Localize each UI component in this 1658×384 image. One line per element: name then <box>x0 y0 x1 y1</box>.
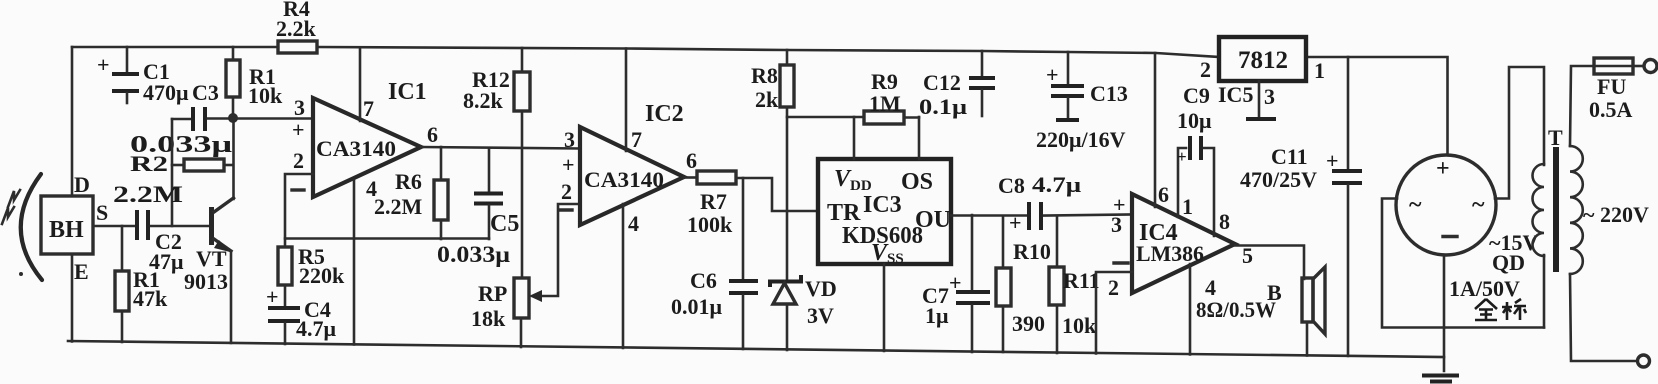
capacitor C7 1u <box>922 215 990 352</box>
wire: IC1 output to IC2 pin 3 <box>421 147 580 149</box>
svg-text:~ 220V: ~ 220V <box>1583 202 1649 227</box>
svg-text:470μ: 470μ <box>143 80 189 105</box>
resistor R9 1M <box>864 69 919 124</box>
resistor R6 2.2M <box>374 147 448 239</box>
capacitor C13 220u/16V <box>1036 52 1128 152</box>
svg-text:IC3: IC3 <box>863 192 902 218</box>
svg-text:R6: R6 <box>395 169 422 194</box>
wire: left rail from top rail down to BH pin D <box>71 47 74 196</box>
wire: top supply rail (left of R4) <box>72 46 278 49</box>
capacitor C11 470/25V <box>1240 57 1362 356</box>
potentiometer RP 18k <box>471 278 529 347</box>
svg-text:~: ~ <box>1472 192 1485 218</box>
resistor R8 2k <box>751 50 794 112</box>
svg-text:220μ/16V: 220μ/16V <box>1036 127 1126 152</box>
capacitor C6 0.01u <box>671 178 758 349</box>
svg-text:CA3140: CA3140 <box>316 136 396 161</box>
svg-text:390: 390 <box>1012 311 1045 336</box>
svg-text:2k: 2k <box>755 87 779 112</box>
svg-text:1μ: 1μ <box>925 303 949 328</box>
transistor VT 9013 <box>184 198 234 343</box>
svg-text:R2: R2 <box>130 151 168 176</box>
timer IC3 KDS608 box <box>818 159 951 267</box>
wire: C8 to IC4 pin 3 <box>1044 215 1132 216</box>
svg-text:2.2M: 2.2M <box>113 182 183 207</box>
wire: IC3 VSS pin to ground rail <box>883 264 886 351</box>
resistor R5 220k <box>278 244 345 306</box>
transformer T secondary winding <box>1533 164 1544 256</box>
capacitor C2 47u <box>137 210 184 274</box>
resistor R12 8.2k <box>463 48 530 113</box>
svg-text:D: D <box>74 172 90 197</box>
speaker B 8ohm/0.5W <box>1196 267 1325 356</box>
svg-text:FU: FU <box>1597 74 1626 99</box>
wire: bridge left ~ input from transformer secondary bottom <box>1382 199 1544 328</box>
capacitor C3 0.033u <box>130 80 233 158</box>
svg-text:VT: VT <box>196 246 227 271</box>
svg-text:+: + <box>1436 156 1450 182</box>
svg-text:R7: R7 <box>700 189 727 214</box>
svg-text:+: + <box>266 284 279 309</box>
svg-text:8: 8 <box>1219 209 1230 234</box>
wire: IC4 pin 6 to top rail <box>1154 53 1157 207</box>
AC terminal (top) <box>1644 60 1657 73</box>
svg-text:1: 1 <box>1314 58 1325 83</box>
svg-text:10μ: 10μ <box>1177 108 1212 133</box>
svg-text:8Ω/0.5W: 8Ω/0.5W <box>1196 297 1276 322</box>
svg-text:T: T <box>1548 125 1563 150</box>
node A: junction dot R1/C3/pin3 <box>228 113 238 123</box>
svg-text:0.5A: 0.5A <box>1589 97 1633 122</box>
transformer core <box>1553 147 1559 272</box>
svg-text:7: 7 <box>363 96 374 121</box>
wire: IC1 pin 4 to ground rail <box>353 180 356 345</box>
zener diode VD 3V <box>770 275 837 350</box>
op-amp IC2 CA3140 <box>580 101 684 225</box>
svg-text:C3: C3 <box>192 80 219 105</box>
bridge rectifier QD <box>1396 155 1538 301</box>
svg-text:10k: 10k <box>248 83 283 108</box>
resistor R4 2.2k (inline in top rail) <box>276 0 317 53</box>
svg-text:VD: VD <box>805 276 837 301</box>
wire: secondary bottom lead <box>1543 255 1546 328</box>
svg-text:1A/50V: 1A/50V <box>1449 276 1520 301</box>
wire: C2 to VT base <box>151 225 209 228</box>
svg-text:1: 1 <box>1182 194 1193 219</box>
svg-text:0.033μ: 0.033μ <box>437 242 510 267</box>
wire: R8 node to R9 left <box>787 116 864 119</box>
wire: IC4 pin 2 stub to ground rail <box>1096 272 1132 354</box>
wire: primary top to fuse <box>1570 66 1594 146</box>
svg-text:7: 7 <box>631 127 642 152</box>
wire: IC4 pin 5 output to speaker <box>1235 246 1304 280</box>
svg-text:470/25V: 470/25V <box>1240 167 1317 192</box>
svg-text:3: 3 <box>1264 84 1275 109</box>
svg-text:2.2k: 2.2k <box>276 16 317 41</box>
svg-text:SS: SS <box>887 251 904 267</box>
wire: junction to IC1 pin 3 <box>233 117 313 120</box>
power amp IC4 LM386 <box>1132 194 1235 293</box>
svg-text:2: 2 <box>1200 57 1211 82</box>
wire: 7812 pin 3 stub with end bar <box>1246 81 1276 119</box>
wire: IC1 pin 2 stub down to feedback node <box>285 174 313 247</box>
svg-text:+: + <box>1009 210 1022 235</box>
svg-text:+: + <box>1326 148 1339 173</box>
svg-text:2: 2 <box>1108 275 1119 300</box>
wire: R8 down through TR wire to zener VD <box>786 107 789 279</box>
svg-text:~: ~ <box>1409 192 1422 218</box>
svg-text:0.01μ: 0.01μ <box>671 294 723 319</box>
svg-text:C9: C9 <box>1183 83 1210 108</box>
wire: vertical from junction down to VT collector <box>232 118 235 199</box>
wire: IC2 pin 4 to ground rail <box>622 204 625 348</box>
wire: IC4 pin 4 to ground rail <box>1189 264 1192 355</box>
svg-text:R8: R8 <box>751 63 778 88</box>
svg-text:2: 2 <box>293 148 304 173</box>
microphone BH box <box>41 196 93 254</box>
svg-text:+: + <box>97 52 110 77</box>
resistor R11 10k <box>1049 216 1100 353</box>
svg-text:10k: 10k <box>1062 313 1097 338</box>
svg-text:C12: C12 <box>923 70 961 95</box>
svg-text:RP: RP <box>478 281 507 306</box>
svg-text:C13: C13 <box>1090 81 1128 106</box>
svg-text:1M: 1M <box>869 91 901 116</box>
sound-wave squiggle marks <box>2 190 23 276</box>
wire: bottom ground rail <box>68 341 1444 357</box>
capacitor C9 10u (pins 1-8) <box>1177 83 1214 236</box>
wire: IC2 pin 7 to top rail <box>625 49 628 152</box>
AC terminal (bottom) <box>1638 355 1650 367</box>
minus input mark <box>1114 261 1128 264</box>
svg-text:C8: C8 <box>998 173 1025 198</box>
wire: feedback leg C3/R2 down to base wire <box>171 119 174 226</box>
wire: bridge minus output down to ground <box>1443 255 1446 371</box>
svg-text:4.7μ: 4.7μ <box>1032 172 1082 197</box>
svg-text:2: 2 <box>561 179 572 204</box>
capacitor C4 4.7u <box>266 284 337 344</box>
wire: R12 bottom down to RP (crosses IC1-IC2 signal wire) <box>521 111 524 278</box>
label 全桥 (drawn strokes) <box>1475 299 1526 320</box>
svg-text:IC5: IC5 <box>1218 82 1253 107</box>
fuse FU 0.5A <box>1589 58 1644 122</box>
svg-text:+: + <box>1046 62 1059 87</box>
svg-text:LM386: LM386 <box>1136 241 1204 266</box>
svg-text:S: S <box>96 200 108 225</box>
op-amp IC1 CA3140 <box>313 79 427 197</box>
wire: top supply rail (7812 pin 1 to bridge +) <box>1306 57 1448 155</box>
svg-text:6: 6 <box>686 148 697 173</box>
wire: BH pin E down to ground rail <box>71 254 74 342</box>
svg-text:IC1: IC1 <box>388 79 427 105</box>
svg-text:47k: 47k <box>133 286 168 311</box>
svg-text:C6: C6 <box>690 268 717 293</box>
svg-text:220k: 220k <box>299 263 345 288</box>
wire: VDD pin up to R9 wire <box>853 117 856 159</box>
transformer T primary winding <box>1570 146 1583 274</box>
svg-text:3: 3 <box>564 127 575 152</box>
ground <box>1422 376 1459 382</box>
svg-text:4.7μ: 4.7μ <box>296 316 337 341</box>
svg-text:0.1μ: 0.1μ <box>919 94 968 119</box>
svg-text:+: + <box>1177 147 1187 166</box>
wire: R9 right down to OS pin <box>918 117 921 159</box>
wire: top supply rail (R4 to 7812 pin 2) <box>317 47 1219 57</box>
svg-text:6: 6 <box>1158 182 1169 207</box>
minus input mark <box>559 208 572 211</box>
svg-text:R10: R10 <box>1013 239 1051 264</box>
svg-text:+: + <box>562 152 575 177</box>
svg-text:IC2: IC2 <box>645 101 684 127</box>
svg-text:CA3140: CA3140 <box>584 167 664 192</box>
wire: RP wiper to IC2 pin 2 <box>529 204 580 302</box>
wire: BH pin S to C2 <box>93 225 134 228</box>
wire: R7 to IC3 TR input (with jog) <box>736 178 818 211</box>
svg-text:+: + <box>949 270 962 295</box>
capacitor C12 0.1u <box>919 51 995 119</box>
svg-text:100k: 100k <box>687 212 733 237</box>
svg-text:3V: 3V <box>807 303 834 328</box>
svg-text:2.2M: 2.2M <box>374 194 423 219</box>
svg-text:9013: 9013 <box>184 269 228 294</box>
wire: IC1 pin 7 to top rail <box>359 48 362 121</box>
svg-text:E: E <box>74 259 89 284</box>
voltage regulator IC5 7812 <box>1200 37 1325 109</box>
wire: bridge right ~ input from transformer secondary top <box>1495 67 1544 199</box>
capacitor C8 4.7u <box>998 172 1082 235</box>
svg-text:C11: C11 <box>1271 144 1308 169</box>
microphone arc <box>21 174 42 280</box>
resistor R1 10k (top) <box>226 47 283 118</box>
capacitor C1 <box>97 47 189 105</box>
resistor R1 47k (mic bias) <box>115 226 168 342</box>
svg-text:4: 4 <box>628 211 639 236</box>
svg-text:7812: 7812 <box>1238 47 1288 74</box>
svg-text:+: + <box>292 117 305 142</box>
minus input mark <box>292 188 304 191</box>
svg-text:R11: R11 <box>1063 268 1100 293</box>
resistor R7 100k <box>684 171 736 237</box>
svg-text:C5: C5 <box>490 211 519 237</box>
svg-text:OS: OS <box>901 169 933 195</box>
svg-text:BH: BH <box>49 217 84 243</box>
svg-text:6: 6 <box>427 122 438 147</box>
resistor R2 2.2M <box>113 151 233 207</box>
resistor R10 390 <box>996 216 1051 352</box>
wire: primary bottom to AC terminal <box>1570 274 1637 361</box>
svg-text:3: 3 <box>1111 212 1122 237</box>
svg-text:QD: QD <box>1492 250 1525 275</box>
capacitor C5 0.033u <box>437 148 519 267</box>
svg-text:8.2k: 8.2k <box>463 88 504 113</box>
wire: feedback node horizontal (R5/R6/C5) <box>285 237 489 240</box>
wire: IC3 OU output to C8 <box>951 214 1027 217</box>
svg-text:18k: 18k <box>471 306 506 331</box>
